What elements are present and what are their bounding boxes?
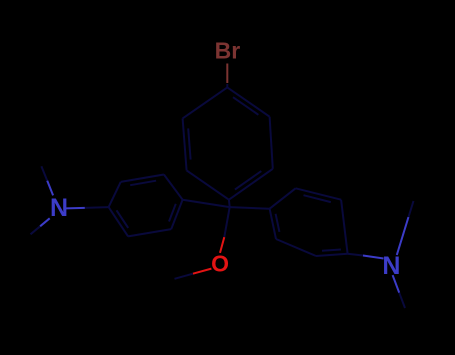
bond C11-C12 ring B	[109, 207, 129, 236]
bond N1-C21 methyl (N half)	[47, 181, 53, 196]
bond O-C20 methoxy (C half)	[175, 274, 193, 279]
bond C17-N2 (C half)	[348, 254, 363, 256]
bond C4-Br (C half)	[226, 84, 228, 87]
bond C6-C1 ring A	[187, 170, 229, 199]
bond N2-C23 methyl (N half)	[397, 217, 409, 255]
bond C14-C15 ring C	[270, 188, 296, 208]
double bond C15-C16 inner	[304, 195, 331, 202]
bond N1-C22 methyl (C half)	[31, 226, 41, 234]
bond C4-C5 ring A	[183, 87, 228, 118]
bond C1-C2 ring A	[229, 169, 273, 200]
bond C7-C14 (central carbon to ring C)	[230, 207, 270, 209]
bond C18-C19 ring C	[276, 239, 316, 256]
bond C7-C8 (central carbon to ring B)	[183, 200, 230, 207]
bond C17-C18 ring C	[316, 254, 348, 256]
bond C12-C13 ring B	[128, 229, 171, 236]
bond C17-N2 (N half)	[363, 256, 384, 259]
bond N2-C24 methyl (N half)	[393, 275, 400, 293]
double bond C17-C18 inner	[322, 250, 341, 251]
double bond C3-C4 inner	[233, 97, 258, 115]
svg-text:N: N	[50, 194, 68, 222]
bond C5-C6 ring A	[183, 118, 187, 170]
double bond C8-C13 inner	[169, 204, 176, 222]
bond C19-C14 ring C	[270, 209, 276, 239]
bond N1-C22 methyl (N half)	[40, 218, 50, 226]
double bond C1-C2 inner	[235, 171, 261, 190]
bond C15-C16 ring C	[296, 188, 342, 199]
bond C8-C9 ring B	[164, 175, 183, 200]
bond C7-O (O half)	[220, 237, 224, 253]
bond C13-C8 ring B	[171, 200, 182, 229]
bond O-C20 methoxy (O half)	[193, 269, 212, 274]
bond N2-C24 methyl (C half)	[399, 293, 405, 308]
double bond C19-C14 inner	[276, 214, 280, 232]
double bond C10-C9 inner	[130, 181, 156, 186]
bond C7-O (C half)	[224, 207, 229, 237]
bond C9-C10 ring B	[121, 175, 164, 182]
double bond C12-C11 inner	[117, 210, 129, 228]
bond C11-N1 (N half)	[66, 207, 85, 210]
svg-text:Br: Br	[215, 38, 241, 64]
bond N1-C21 methyl (C half)	[41, 166, 47, 180]
svg-text:O: O	[211, 250, 229, 276]
double bond C5-C6 inner	[188, 128, 190, 159]
bond C11-N1 (C half)	[85, 206, 109, 209]
bond C3-C4 ring A	[227, 87, 269, 116]
bond C4-Br (Br half)	[226, 64, 228, 84]
svg-text:N: N	[382, 252, 400, 280]
bond C1-C7 (ring A to central carbon)	[228, 200, 231, 207]
bond C10-C11 ring B	[109, 182, 121, 207]
bond C2-C3 ring A	[270, 117, 273, 169]
bond C16-C17 ring C	[341, 200, 348, 254]
bond N2-C23 methyl (C half)	[409, 201, 414, 217]
